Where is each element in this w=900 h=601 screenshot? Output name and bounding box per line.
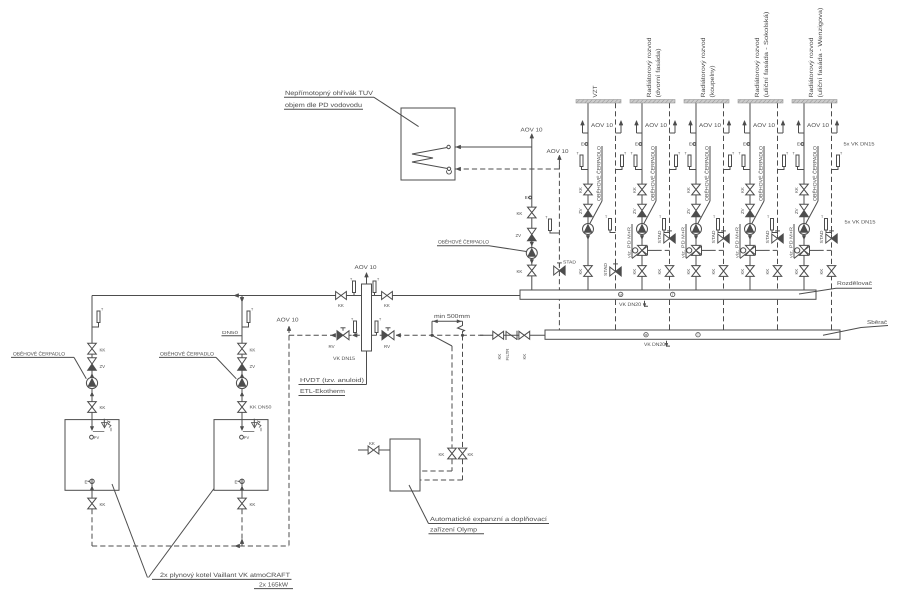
svg-text:KK: KK [578,269,583,275]
svg-text:E: E [797,142,800,147]
svg-text:(koupelny): (koupelny) [709,66,716,98]
svg-text:KK: KK [632,269,637,275]
svg-text:KK: KK [819,269,824,275]
svg-text:KK: KK [522,354,527,360]
svg-text:ZV: ZV [632,208,637,214]
svg-text:5x VK DN15: 5x VK DN15 [845,220,876,226]
svg-text:KK: KK [100,405,106,410]
svg-text:(dvorní fasáda): (dvorní fasáda) [655,49,662,98]
svg-text:ETL-Ekotherm: ETL-Ekotherm [300,388,345,395]
svg-text:ZV: ZV [516,233,522,238]
svg-text:T: T [697,333,699,337]
svg-text:ZV: ZV [250,364,256,369]
svg-text:E: E [581,142,584,147]
svg-text:ZV: ZV [100,364,106,369]
svg-text:viz. PD M+R: viz. PD M+R [735,227,740,258]
svg-text:KK: KK [686,269,691,275]
svg-text:STAD: STAD [563,260,576,265]
svg-text:RV: RV [329,344,335,349]
svg-text:Radiátorový rozvod: Radiátorový rozvod [808,38,815,98]
svg-text:PV: PV [244,435,250,440]
svg-text:KK DN50: KK DN50 [250,405,273,410]
svg-text:DN50: DN50 [222,330,239,335]
svg-text:viz. PD M+R: viz. PD M+R [627,227,632,258]
svg-text:VK DN20: VK DN20 [619,302,641,308]
svg-text:2x plynový kotel Vaillant VK a: 2x plynový kotel Vaillant VK atmoCRAFT [160,572,290,579]
svg-text:Radiátorový rozvod: Radiátorový rozvod [754,38,761,98]
svg-text:HVDT (tzv. anuloid): HVDT (tzv. anuloid) [300,377,364,384]
svg-text:zařízení Olymp: zařízení Olymp [430,527,478,534]
svg-text:OBĚHOVÉ ČERPADLO: OBĚHOVÉ ČERPADLO [650,146,657,201]
svg-text:ZV: ZV [578,208,583,214]
svg-text:OBĚHOVÉ ČERPADLO: OBĚHOVÉ ČERPADLO [160,351,214,358]
svg-text:min 500mm: min 500mm [434,313,470,320]
svg-text:KK: KK [468,452,474,457]
svg-text:Automatické expanzní a doplňov: Automatické expanzní a doplňovací [430,516,547,523]
svg-text:ZV: ZV [686,208,691,214]
svg-text:VK DN20: VK DN20 [644,342,665,348]
svg-text:KK: KK [497,354,502,360]
svg-text:VZT: VZT [592,85,599,97]
svg-text:KK: KK [338,303,344,308]
svg-text:Sběrač: Sběrač [867,320,887,326]
svg-text:Rozdělovač: Rozdělovač [837,281,872,287]
svg-text:STAD: STAD [603,263,608,276]
svg-text:2x 165kW: 2x 165kW [259,582,288,589]
svg-text:STAD: STAD [765,231,770,244]
svg-text:AOV 10: AOV 10 [645,123,667,129]
svg-text:OBĚHOVÉ ČERPADLO: OBĚHOVÉ ČERPADLO [13,351,65,358]
svg-text:E: E [689,142,692,147]
svg-text:E: E [235,480,238,485]
svg-text:AOV 10: AOV 10 [699,123,721,129]
svg-text:VK DN15: VK DN15 [333,356,355,362]
svg-text:OBĚHOVÉ ČERPADLO: OBĚHOVÉ ČERPADLO [704,146,711,201]
svg-text:E: E [635,142,638,147]
svg-text:Radiátorový rozvod: Radiátorový rozvod [700,38,707,98]
svg-text:(uliční fasáda - Wenzigova): (uliční fasáda - Wenzigova) [817,8,824,98]
svg-text:KK: KK [439,452,445,457]
svg-text:E: E [743,142,746,147]
svg-text:5x VK DN15: 5x VK DN15 [844,142,875,148]
svg-text:T: T [672,293,674,297]
svg-text:E: E [85,480,88,485]
svg-text:KK: KK [686,187,691,193]
svg-text:AOV 10: AOV 10 [753,123,775,129]
svg-text:KK: KK [369,441,375,446]
svg-text:M: M [619,293,622,297]
svg-text:PV: PV [94,435,100,440]
svg-text:Radiátorový rozvod: Radiátorový rozvod [646,38,653,98]
svg-text:KK: KK [100,502,106,507]
svg-text:AOV 10: AOV 10 [355,265,377,271]
svg-text:KK: KK [657,269,662,275]
svg-text:RV: RV [384,344,390,349]
svg-text:AOV 10: AOV 10 [807,123,829,129]
svg-text:STAD: STAD [657,231,662,244]
svg-text:AOV 10: AOV 10 [277,318,299,324]
svg-text:KK: KK [517,211,523,216]
svg-text:(uliční fasáda - Sokolská): (uliční fasáda - Sokolská) [763,12,770,98]
svg-text:KK: KK [250,502,256,507]
svg-text:E: E [525,195,528,200]
svg-text:OBĚHOVÉ ČERPADLO: OBĚHOVÉ ČERPADLO [596,146,603,201]
svg-text:AOV 10: AOV 10 [521,128,543,134]
svg-text:KK: KK [740,269,745,275]
svg-text:FILTR: FILTR [505,349,510,361]
svg-text:KK: KK [765,269,770,275]
svg-text:KK: KK [794,187,799,193]
svg-text:KK: KK [517,269,523,274]
svg-text:AOV 10: AOV 10 [547,149,569,155]
svg-text:KK: KK [794,269,799,275]
svg-text:KK: KK [711,269,716,275]
svg-text:KK: KK [632,187,637,193]
svg-text:ZV: ZV [740,208,745,214]
svg-text:KK: KK [384,303,390,308]
svg-text:Nepřímotopný ohřívák TUV: Nepřímotopný ohřívák TUV [285,90,374,97]
svg-text:KK: KK [740,187,745,193]
svg-text:OBĚHOVÉ ČERPADLO: OBĚHOVÉ ČERPADLO [438,239,489,246]
svg-text:STAD: STAD [711,231,716,244]
svg-text:KK: KK [100,348,106,353]
svg-text:objem dle PD vodovodu: objem dle PD vodovodu [285,102,363,109]
svg-text:OBĚHOVÉ ČERPADLO: OBĚHOVÉ ČERPADLO [758,146,765,201]
svg-text:viz. PD M+R: viz. PD M+R [681,227,686,258]
svg-text:AOV 10: AOV 10 [591,123,613,129]
svg-text:STAD: STAD [819,231,824,244]
svg-text:KK: KK [250,348,256,353]
svg-text:KK: KK [578,187,583,193]
svg-text:OBĚHOVÉ ČERPADLO: OBĚHOVÉ ČERPADLO [812,146,819,201]
svg-text:ZV: ZV [794,208,799,214]
svg-text:M: M [645,333,648,337]
svg-text:viz. PD M+R: viz. PD M+R [789,227,794,258]
